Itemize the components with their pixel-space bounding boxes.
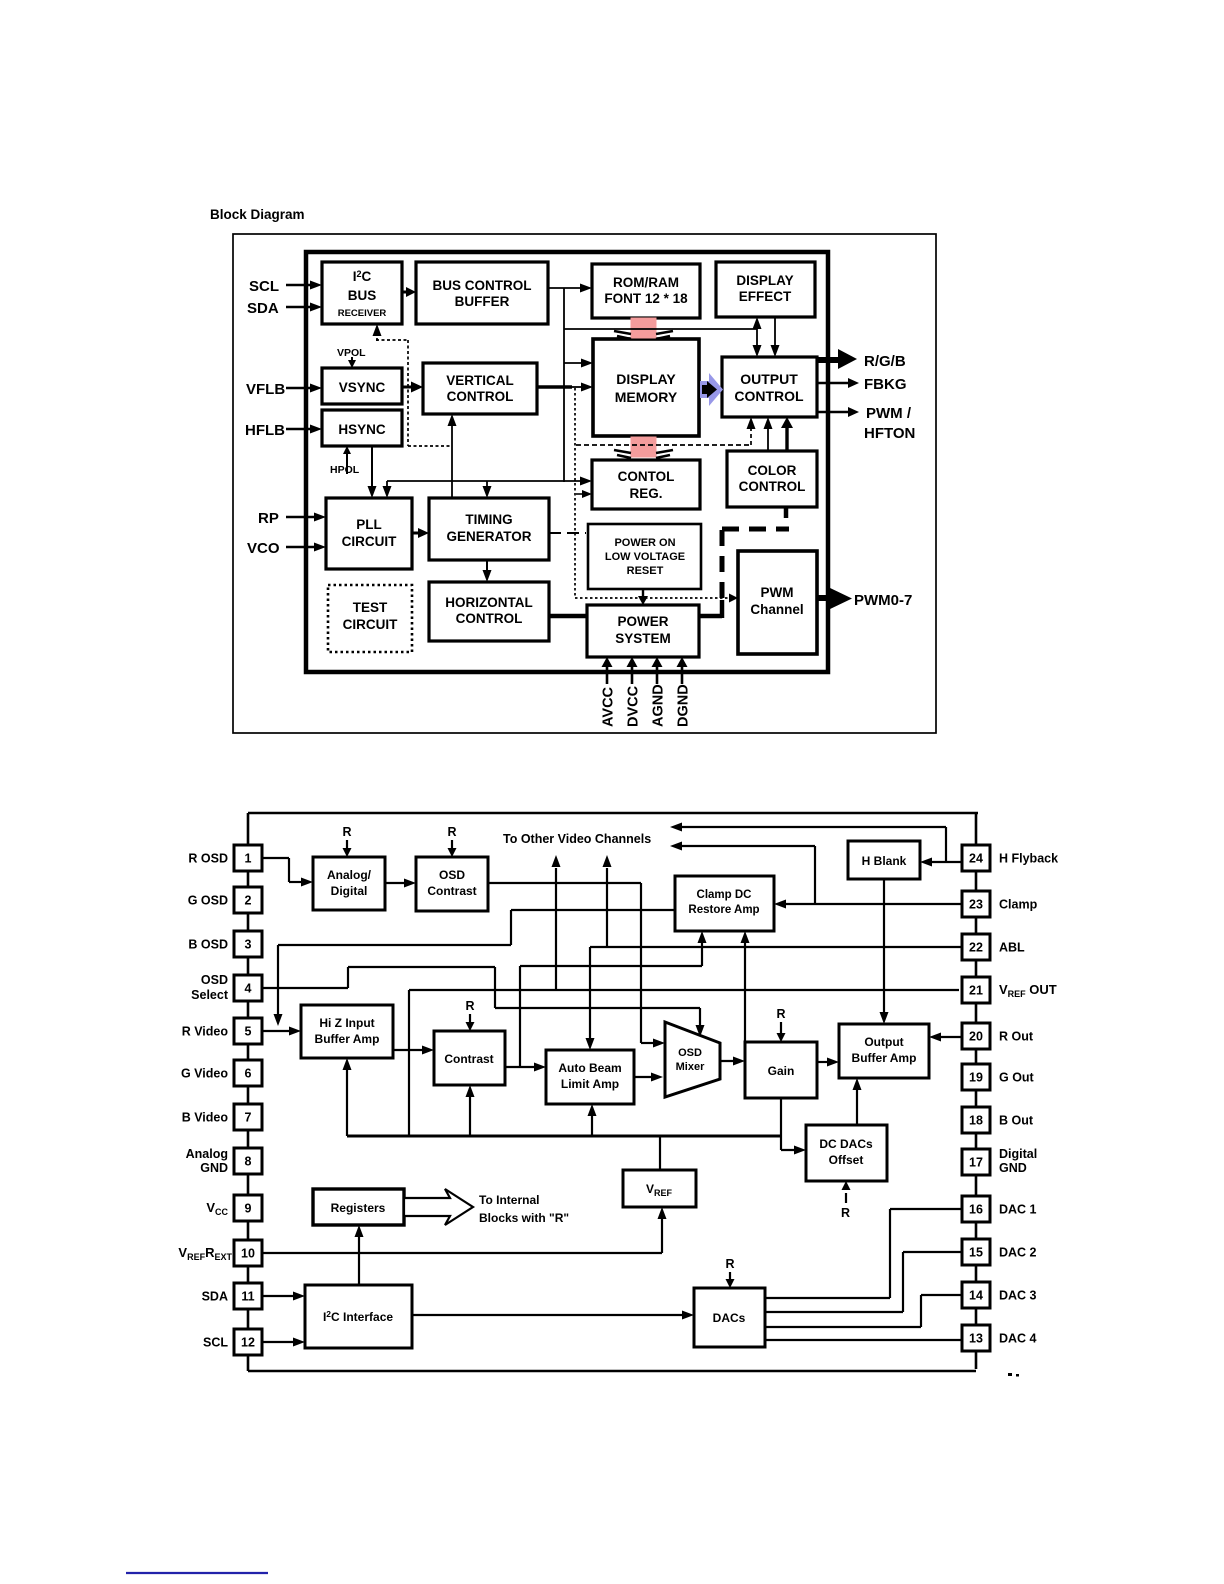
wire: dashed feedback to I2C BUS RECEIVER bottom <box>376 331 378 341</box>
wire: arrow down into TIMING GENERATOR top <box>486 481 488 490</box>
svg-text:R: R <box>466 999 475 1013</box>
pin 20 box (right) <box>962 1023 990 1049</box>
wire: bus up into Contrast bottom <box>469 1096 471 1136</box>
wire: COLOR CONTROL bottom stub <box>784 507 789 518</box>
svg-text:SDA: SDA <box>247 300 279 317</box>
wire: thick dashed horizontal y=529 to COLOR CONTROL stub <box>722 527 789 532</box>
wire: Hi Z Input Buffer Amp to Contrast <box>393 1049 426 1051</box>
svg-text:CONTROL: CONTROL <box>739 479 806 494</box>
svg-text:HORIZONTAL: HORIZONTAL <box>445 595 533 610</box>
wire: Gain bottom down into DC DACs Offset left <box>780 1098 782 1150</box>
svg-text:CONTOL: CONTOL <box>618 469 675 484</box>
svg-text:CONTROL: CONTROL <box>456 611 523 626</box>
block: ROM/RAM FONT 12 * 18 <box>592 264 700 318</box>
svg-text:I2C: I2C <box>353 269 372 284</box>
wire: I2C Interface to DACs <box>412 1314 684 1316</box>
symbol: To Internal Blocks outline arrow <box>404 1189 473 1225</box>
svg-text:18: 18 <box>969 1114 983 1128</box>
wire: HORIZONTAL CONTROL thick line to POWER SYSTEM <box>549 614 587 619</box>
block: DISPLAY EFFECT <box>716 262 815 317</box>
svg-text:Contrast: Contrast <box>427 884 476 898</box>
svg-text:RESET: RESET <box>627 565 664 577</box>
svg-text:TIMING: TIMING <box>465 512 512 527</box>
svg-text:AVCC: AVCC <box>601 686 617 727</box>
svg-text:7: 7 <box>245 1111 252 1125</box>
wire: DGND supply arrow into POWER SYSTEM <box>681 666 684 684</box>
pin 17 box (right) <box>962 1149 990 1175</box>
svg-text:Restore Amp: Restore Amp <box>688 904 759 916</box>
svg-text:ABL: ABL <box>999 941 1025 955</box>
pin 23 box (right) <box>962 891 990 917</box>
pin 14 box (right) <box>962 1282 990 1308</box>
svg-text:Buffer Amp: Buffer Amp <box>315 1032 380 1046</box>
pin 6 box (left) <box>234 1060 262 1086</box>
wire: bus up into Hi Z Input Buffer Amp bottom <box>346 1069 348 1136</box>
wire: RP input arrow <box>286 516 316 519</box>
block: Gain <box>745 1042 817 1098</box>
pin 11 box (left) <box>234 1283 262 1309</box>
block: TIMING GENERATOR <box>429 498 549 560</box>
wire: POWER ON reset arrow down to POWER SYSTEM <box>642 589 644 596</box>
svg-text:1: 1 <box>245 852 252 866</box>
svg-text:Blocks with "R": Blocks with "R" <box>479 1211 569 1225</box>
svg-text:Offset: Offset <box>829 1153 864 1167</box>
svg-text:OSD: OSD <box>678 1047 702 1059</box>
svg-text:R OSD: R OSD <box>188 852 228 866</box>
svg-text:B Out: B Out <box>999 1114 1034 1128</box>
svg-text:Output: Output <box>864 1035 903 1049</box>
svg-text:20: 20 <box>969 1030 983 1044</box>
block: OUTPUT CONTROL <box>722 357 817 417</box>
svg-text:SCL: SCL <box>249 278 279 295</box>
wire: Registers up arrow from I2C Interface <box>358 1235 360 1285</box>
svg-text:R: R <box>777 1007 786 1021</box>
svg-text:Clamp: Clamp <box>999 898 1038 912</box>
svg-text:14: 14 <box>969 1289 983 1303</box>
wire: AGND supply arrow into POWER SYSTEM <box>656 666 659 684</box>
wire: OSD Contrast output down to OSD Mixer <box>488 882 641 884</box>
wire: control bus horizontal y=481 feeding PLL TIMING CONTOL REG <box>387 480 586 482</box>
svg-text:Registers: Registers <box>331 1201 386 1215</box>
pin 5 box (left) <box>234 1018 262 1044</box>
block: Analog/Digital <box>313 857 385 910</box>
svg-text:DACs: DACs <box>713 1311 746 1325</box>
svg-text:SYSTEM: SYSTEM <box>615 631 671 646</box>
wire: dashed line y=445 under DISPLAY MEMORY <box>576 444 751 446</box>
svg-text:3: 3 <box>245 938 252 952</box>
pin 10 box (left) <box>234 1240 262 1266</box>
svg-text:9: 9 <box>245 1202 252 1216</box>
svg-text:24: 24 <box>969 852 983 866</box>
wire: HSYNC bottom down to PLL CIRCUIT top <box>371 446 373 489</box>
wire: branch x=946 up and left to other video channels <box>945 827 947 862</box>
svg-text:R: R <box>726 1257 735 1271</box>
svg-text:17: 17 <box>969 1156 983 1170</box>
wire: PWM0-7 big output arrow <box>817 595 829 601</box>
block: DACs <box>694 1288 765 1347</box>
wire: DACs output 2 to pin 15 DAC 2 <box>765 1311 903 1313</box>
block: Contrast <box>434 1031 505 1085</box>
svg-text:CONTROL: CONTROL <box>734 388 804 404</box>
svg-text:2: 2 <box>245 894 252 908</box>
wire: line y=910 into Clamp DC Restore Amp left <box>511 909 675 911</box>
wire: branch up into Clamp DC Restore Amp bottom at x=745 <box>744 941 746 947</box>
svg-text:Analog/: Analog/ <box>327 868 372 882</box>
bus arrow (purple) DISPLAY MEMORY to OUTPUT CONTROL <box>700 373 723 406</box>
svg-text:Select: Select <box>191 988 229 1002</box>
wire: pin 10 VREF/REXT up into VREF box bottom <box>263 1252 662 1254</box>
svg-text:VCC: VCC <box>206 1200 228 1217</box>
svg-text:CIRCUIT: CIRCUIT <box>343 617 398 632</box>
svg-text:22: 22 <box>969 941 983 955</box>
svg-text:VREFREXT: VREFREXT <box>178 1245 232 1262</box>
wire: top rail of pin frame <box>248 812 978 815</box>
pin 13 box (right) <box>962 1325 990 1351</box>
outer thin frame of top diagram <box>233 234 936 733</box>
svg-text:ROM/RAM: ROM/RAM <box>613 275 679 290</box>
wire: pin 20 R Out to Output Buffer Amp <box>941 1036 962 1038</box>
wire: arrow up into VERTICAL CONTROL bottom <box>451 422 453 499</box>
svg-text:16: 16 <box>969 1203 983 1217</box>
svg-text:REG.: REG. <box>629 486 662 501</box>
pin 24 box (right) <box>962 845 990 871</box>
wire: riser x=511 to clamp input line <box>510 910 512 945</box>
wire: VERTICAL CONTROL output thick line then arrow into DISPLAY MEMORY <box>537 385 572 388</box>
svg-text:GND: GND <box>999 1161 1027 1175</box>
block: BUS CONTROL BUFFER <box>416 262 548 324</box>
wire: FBKG output arrow <box>817 382 848 385</box>
svg-text:CONTROL: CONTROL <box>447 389 514 404</box>
wire: DACs output 4 to pin 13 DAC 4 <box>765 1339 962 1341</box>
wire: H Blank down into Output Buffer Amp top <box>883 879 885 1014</box>
svg-text:Analog: Analog <box>186 1147 228 1161</box>
svg-text:Block Diagram: Block Diagram <box>210 207 305 222</box>
svg-text:GENERATOR: GENERATOR <box>446 529 531 544</box>
block: I2C Interface <box>305 1285 412 1348</box>
wire: bottom rail of pin frame <box>248 1370 976 1373</box>
wire: ABL down into Auto Beam Limit Amp top <box>589 947 591 1040</box>
svg-text:FONT 12 * 18: FONT 12 * 18 <box>604 291 688 306</box>
wire: PWM/HFTON output arrow <box>817 411 848 414</box>
svg-text:6: 6 <box>245 1067 252 1081</box>
svg-text:RECEIVER: RECEIVER <box>338 308 387 319</box>
block: Output Buffer Amp <box>839 1024 929 1078</box>
svg-text:HPOL: HPOL <box>330 464 360 476</box>
block: OSD Contrast <box>416 857 488 911</box>
svg-text:DISPLAY: DISPLAY <box>616 371 676 387</box>
wire: dashed arrow up into OUTPUT CONTROL bottom <box>750 424 752 445</box>
wire: Analog/Digital to OSD Contrast <box>385 882 408 884</box>
svg-text:DGND: DGND <box>676 684 692 727</box>
svg-text:4: 4 <box>245 982 252 996</box>
svg-text:I2C Interface: I2C Interface <box>323 1309 393 1324</box>
svg-text:B OSD: B OSD <box>188 938 228 952</box>
wire: pin 24 H Flyback to H Blank <box>932 861 962 863</box>
svg-text:HFTON: HFTON <box>864 425 915 442</box>
block: COLOR CONTROL <box>727 451 817 507</box>
svg-text:SDA: SDA <box>202 1290 228 1304</box>
wire: x=745 down to Gain top <box>744 947 746 1042</box>
svg-text:VCO: VCO <box>247 540 280 557</box>
svg-text:CIRCUIT: CIRCUIT <box>342 534 397 549</box>
svg-text:VREF OUT: VREF OUT <box>999 982 1057 999</box>
svg-text:DAC 1: DAC 1 <box>999 1203 1037 1217</box>
block: TEST CIRCUIT (dotted) <box>328 585 412 652</box>
pin 12 box (left) <box>234 1329 262 1355</box>
wire: pin 12 SCL into I2C Interface <box>263 1341 295 1343</box>
wire: dash-dot vertical bus x=575 <box>574 388 576 598</box>
block: HORIZONTAL CONTROL <box>429 582 549 641</box>
svg-text:PWM /: PWM / <box>866 405 912 422</box>
footnote underline (blue) <box>126 1572 268 1574</box>
wire: pin 23 Clamp to Clamp DC Restore Amp right <box>786 903 962 905</box>
svg-text:OSD: OSD <box>439 868 465 882</box>
wire: vertical bus from BUS CONTROL BUFFER output down <box>563 288 565 482</box>
svg-text:R: R <box>448 825 457 839</box>
block: VSYNC <box>322 368 402 404</box>
wire: SCL input arrow <box>286 284 312 287</box>
svg-text:11: 11 <box>241 1290 254 1304</box>
wire: arrow from dashed bus into CONTOL REG at y=494 <box>576 493 585 495</box>
svg-text:PLL: PLL <box>356 517 382 532</box>
wire: dotted line into PWM Channel <box>575 597 729 599</box>
block: VERTICAL CONTROL <box>423 363 537 414</box>
block: POWER ON LOW VOLTAGE RESET <box>588 524 701 589</box>
svg-text:10: 10 <box>241 1247 255 1261</box>
wire: thin arrow COLOR CONTROL top to OUTPUT CONTROL bottom <box>767 424 769 451</box>
pin 4 box (left) <box>234 975 262 1001</box>
wire: Auto Beam Limit Amp to OSD Mixer <box>634 1076 655 1078</box>
block: H Blank <box>848 841 920 879</box>
svg-text:DAC 2: DAC 2 <box>999 1246 1037 1260</box>
wire: pin 22 ABL line <box>590 946 962 948</box>
wire: branch down to R Video line with arrow <box>277 945 279 1017</box>
svg-text:12: 12 <box>241 1336 255 1350</box>
svg-text:PWM: PWM <box>761 585 794 600</box>
wire: POWER SYSTEM right thick line with hook up <box>699 614 722 619</box>
inner thick frame of top diagram <box>306 252 828 672</box>
wire: DVCC supply arrow into POWER SYSTEM <box>631 666 634 684</box>
block: Clamp DC Restore Amp <box>675 876 774 931</box>
wire: BUS CONTROL BUFFER to ROM/RAM <box>548 287 584 289</box>
block: HSYNC <box>322 410 402 446</box>
svg-text:To Other Video Channels: To Other Video Channels <box>503 832 651 846</box>
block: PWM Channel <box>738 551 817 654</box>
svg-text:OUTPUT: OUTPUT <box>740 371 798 387</box>
block: Hi Z Input Buffer Amp <box>301 1005 393 1058</box>
wire: bus down to VREF box top <box>659 1136 661 1170</box>
svg-text:8: 8 <box>245 1155 252 1169</box>
svg-text:GND: GND <box>200 1161 228 1175</box>
svg-text:DISPLAY: DISPLAY <box>736 273 793 288</box>
svg-text:15: 15 <box>969 1246 983 1260</box>
wire: arrow down into PLL top from control bus <box>386 481 388 490</box>
svg-text:G Out: G Out <box>999 1071 1035 1085</box>
svg-text:PWM0-7: PWM0-7 <box>854 592 912 609</box>
svg-text:H Blank: H Blank <box>862 854 907 868</box>
svg-text:Limit Amp: Limit Amp <box>561 1077 619 1091</box>
svg-text:POWER ON: POWER ON <box>614 537 675 549</box>
wire: DACs output 1 to pin 16 DAC 1 <box>765 1297 890 1299</box>
block: VREF reference <box>623 1170 696 1207</box>
wire: VREF OUT riser down to video bus <box>408 990 410 1136</box>
block: OSD Mixer (trapezoid) <box>665 1022 720 1097</box>
svg-text:Auto Beam: Auto Beam <box>558 1061 621 1075</box>
pin 2 box (left) <box>234 887 262 913</box>
svg-text:R Video: R Video <box>182 1025 229 1039</box>
pin 8 box (left) <box>234 1148 262 1174</box>
svg-text:DC DACs: DC DACs <box>819 1137 873 1151</box>
wire: Contrast to Auto Beam Limit Amp <box>505 1066 538 1068</box>
pin 21 box (right) <box>962 977 990 1003</box>
pin 3 box (left) <box>234 931 262 957</box>
wire: pin 4 OSD Select to OSD Mixer <box>262 987 348 989</box>
wire: HPOL arrow up into HSYNC bottom <box>346 454 348 474</box>
svg-text:DVCC: DVCC <box>626 685 642 727</box>
wire: arrow into DISPLAY MEMORY left at y=363 <box>564 362 585 364</box>
wire: right pin chain rail <box>975 814 978 1369</box>
wire: Gain to Output Buffer Amp <box>817 1061 831 1063</box>
pin 22 box (right) <box>962 934 990 960</box>
svg-text:Gain: Gain <box>768 1064 795 1078</box>
svg-text:DAC 4: DAC 4 <box>999 1332 1037 1346</box>
wire: DISPLAY EFFECT / OUTPUT CONTROL bidirectional arrows <box>756 324 758 351</box>
wire: pin 5 R Video into Hi Z Input Buffer Amp <box>262 1030 293 1032</box>
block: DISPLAY MEMORY <box>593 339 699 436</box>
wire: VSYNC to VERTICAL CONTROL <box>402 386 412 389</box>
wire: pin 11 SDA into I2C Interface <box>263 1295 295 1297</box>
svg-text:Hi Z Input: Hi Z Input <box>319 1016 374 1030</box>
block: Registers <box>313 1189 404 1225</box>
wire: left pin chain rail <box>247 813 250 1371</box>
svg-text:TEST: TEST <box>353 600 388 615</box>
svg-text:Clamp DC: Clamp DC <box>697 889 752 901</box>
svg-text:MEMORY: MEMORY <box>615 389 678 405</box>
wire: DC DACs Offset up into Output Buffer Amp bottom <box>856 1089 858 1125</box>
svg-text:VSYNC: VSYNC <box>339 380 386 395</box>
svg-text:VFLB: VFLB <box>246 381 285 398</box>
block: PLL CIRCUIT <box>326 498 412 569</box>
wire: DACs output 3 to pin 14 DAC 3 <box>765 1326 921 1328</box>
pin 15 box (right) <box>962 1239 990 1265</box>
svg-text:SCL: SCL <box>203 1336 228 1350</box>
svg-text:RP: RP <box>258 510 279 527</box>
svg-text:G Video: G Video <box>181 1067 228 1081</box>
svg-text:R: R <box>841 1206 850 1220</box>
wire: SDA input arrow <box>286 306 312 309</box>
svg-text:21: 21 <box>969 984 983 998</box>
svg-text:H Flyback: H Flyback <box>999 852 1058 866</box>
svg-text:FBKG: FBKG <box>864 376 907 393</box>
svg-text:VERTICAL: VERTICAL <box>446 373 514 388</box>
wire: VCO input arrow <box>286 546 316 549</box>
svg-text:EFFECT: EFFECT <box>739 289 792 304</box>
wire: PLL CIRCUIT to TIMING GENERATOR <box>412 532 419 535</box>
svg-text:Channel: Channel <box>750 602 803 617</box>
svg-text:LOW VOLTAGE: LOW VOLTAGE <box>605 551 685 563</box>
wire: VPOL arrow down into VSYNC top <box>351 357 353 362</box>
pin 9 box (left) <box>234 1195 262 1221</box>
svg-text:G OSD: G OSD <box>188 894 228 908</box>
wire: video feedback bus y=1136 (thick) <box>347 1135 781 1138</box>
svg-text:Contrast: Contrast <box>444 1052 493 1066</box>
svg-text:Mixer: Mixer <box>676 1061 705 1073</box>
wire: branch x=815 up and left to other video channels <box>814 846 816 904</box>
block U-I2C: I2C BUS RECEIVER <box>322 262 402 324</box>
svg-text:HFLB: HFLB <box>245 422 285 439</box>
wire: branch to font bus line y=329 <box>564 328 757 330</box>
svg-text:HSYNC: HSYNC <box>338 422 386 437</box>
block: POWER SYSTEM <box>587 605 699 657</box>
wire: thick dashed vertical x=722 of PWM enable path <box>720 528 725 598</box>
wire: OSD Mixer to Gain <box>720 1060 737 1062</box>
wire: VFLB input arrow <box>286 387 312 390</box>
svg-text:BUS CONTROL: BUS CONTROL <box>433 278 532 293</box>
wire: channel tap arrow up x=607 from ABL line <box>606 868 608 947</box>
svg-text:13: 13 <box>969 1332 983 1346</box>
svg-text:23: 23 <box>969 898 983 912</box>
svg-text:POWER: POWER <box>617 614 668 629</box>
wire: AVCC supply arrow into POWER SYSTEM <box>606 666 609 684</box>
wire: TIMING GENERATOR dashed output to right <box>549 532 586 534</box>
wire: pin 1 R OSD to Analog/Digital <box>262 857 289 859</box>
svg-text:B Video: B Video <box>182 1111 229 1125</box>
pin 7 box (left) <box>234 1104 262 1130</box>
svg-text:BUFFER: BUFFER <box>455 294 510 309</box>
svg-text:Buffer Amp: Buffer Amp <box>852 1051 917 1065</box>
wire: clamp feedback line y=945 to R video node <box>278 944 511 946</box>
svg-text:R: R <box>343 825 352 839</box>
block: CONTOL REG. <box>592 460 700 509</box>
wire: TIMING GENERATOR down to HORIZONTAL CONTROL <box>486 560 488 573</box>
svg-text:BUS: BUS <box>348 288 377 303</box>
pin 1 box (left) <box>234 845 262 871</box>
svg-text:DAC 3: DAC 3 <box>999 1289 1037 1303</box>
block: Auto Beam Limit Amp <box>546 1050 634 1104</box>
svg-text:Digital: Digital <box>331 884 368 898</box>
wire: thick arrow COLOR CONTROL top to OUTPUT CONTROL bottom <box>785 428 788 451</box>
wire: HFLB input arrow <box>286 428 312 431</box>
svg-text:AGND: AGND <box>651 684 667 727</box>
svg-text:R/G/B: R/G/B <box>864 353 906 370</box>
svg-text:19: 19 <box>969 1071 983 1085</box>
svg-text:OSD: OSD <box>201 973 228 987</box>
svg-text:COLOR: COLOR <box>748 463 797 478</box>
svg-text:R Out: R Out <box>999 1030 1034 1044</box>
wire: channel tap arrow up x=556 from VREF OUT line <box>555 868 557 990</box>
wire: pin 21 VREF OUT line <box>409 989 959 991</box>
pin 16 box (right) <box>962 1196 990 1222</box>
pin 18 box (right) <box>962 1107 990 1133</box>
wire: clamp sense from contrast output node up to Clamp DC bottom <box>701 941 703 966</box>
bus connector (pink) between ROM/RAM and DISPLAY MEMORY <box>631 318 656 338</box>
svg-text:5: 5 <box>245 1025 252 1039</box>
wire: bus up into Auto Beam Limit Amp bottom <box>591 1115 593 1136</box>
bus connector (pink) between DISPLAY MEMORY and CONTOL REG <box>631 437 656 457</box>
block: DC DACs Offset <box>806 1125 887 1181</box>
wire: R/G/B big output arrow <box>817 357 838 363</box>
pin 19 box (right) <box>962 1064 990 1090</box>
artifact dots at lower right <box>1008 1373 1012 1376</box>
svg-text:Digital: Digital <box>999 1147 1037 1161</box>
wire: I2C BUS to BUS CONTROL BUFFER <box>402 291 408 294</box>
svg-text:To Internal: To Internal <box>479 1193 539 1207</box>
